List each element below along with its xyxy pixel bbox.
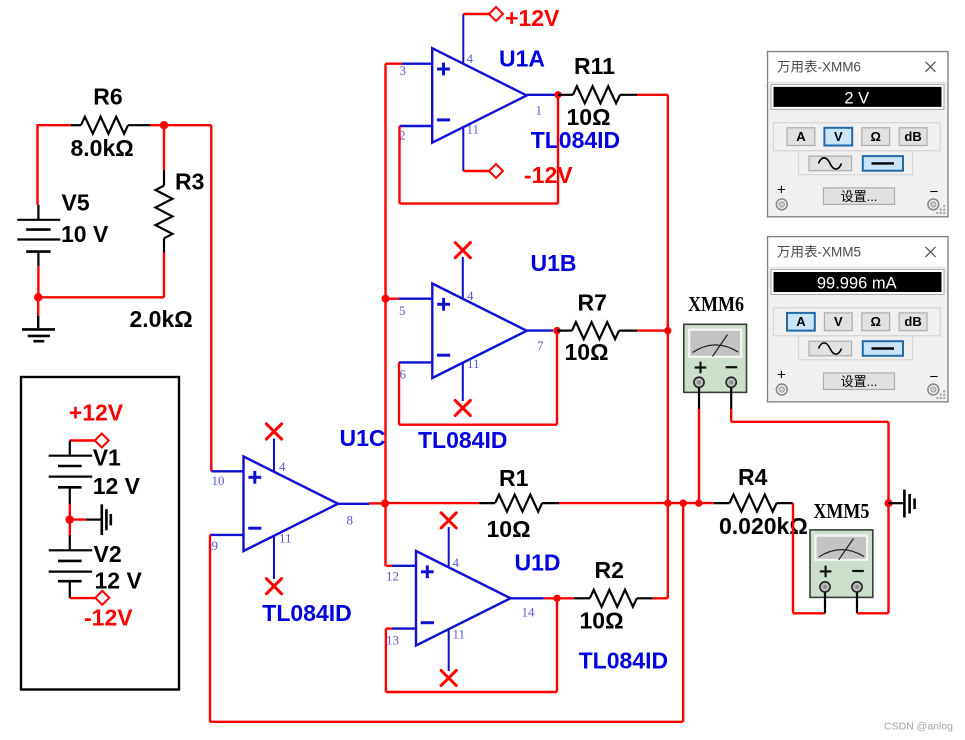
svg-text:−: − <box>930 369 939 386</box>
wire: R11 right to output bus <box>637 94 668 96</box>
wire: divider node down to U1C pin 10 <box>210 125 212 471</box>
no-connect X (U1B pin 11) <box>455 400 470 415</box>
dual supply box outline <box>21 377 179 690</box>
node: supply midpoint <box>65 515 73 523</box>
svg-text:12 V: 12 V <box>93 473 141 499</box>
wire: R3 bottom to V5 bottom node <box>38 253 164 298</box>
pin 4 stub U1A <box>462 14 464 64</box>
pin 2 stub U1A <box>400 125 433 127</box>
svg-text:+12V: +12V <box>505 5 560 31</box>
svg-text:A: A <box>796 314 806 329</box>
wire: XMM5 - terminal to ground net <box>857 422 889 614</box>
wire: main output line (node to R1) <box>385 502 479 504</box>
node: U1A output <box>554 91 561 98</box>
svg-text:U1A: U1A <box>499 46 545 72</box>
wire: U1D feedback (out to pin 13) <box>386 598 557 692</box>
wire: V1 bottom to mid node <box>69 504 71 519</box>
svg-text:0.020kΩ: 0.020kΩ <box>719 513 808 539</box>
pin 7 output stub U1B <box>527 329 553 331</box>
wire: U1C output to node <box>369 502 385 504</box>
no-connect X (U1D pin 4) <box>441 513 456 528</box>
node: V5 bottom junction <box>34 293 42 301</box>
wire: R7 right to output bus <box>637 329 668 331</box>
power rail -12V diamond (V2) <box>70 591 110 605</box>
svg-text:dB: dB <box>904 129 921 144</box>
multimeter panel XMM6 <box>768 52 949 217</box>
svg-text:V: V <box>834 129 843 144</box>
svg-text:TL084ID: TL084ID <box>579 647 668 673</box>
pin 4 stub U1B <box>462 257 464 299</box>
pin 11 stub U1A <box>462 126 464 171</box>
node: U1C output <box>381 499 389 507</box>
resistor R4 <box>714 464 808 539</box>
node: U1B output <box>553 327 560 334</box>
svg-text:R11: R11 <box>574 53 615 79</box>
svg-text:+: + <box>777 367 786 384</box>
pin 4 stub U1C <box>273 439 275 473</box>
svg-text:Ω: Ω <box>870 129 880 144</box>
svg-text:Ω: Ω <box>870 314 880 329</box>
svg-text:11: 11 <box>467 356 480 371</box>
pin 9 stub U1C <box>210 534 244 536</box>
svg-text:8.0kΩ: 8.0kΩ <box>71 135 134 161</box>
pin 12 stub U1D <box>392 565 416 567</box>
resistor R11 <box>558 53 637 130</box>
wire: R6 right to node A <box>150 124 164 126</box>
svg-text:设置...: 设置... <box>841 189 878 204</box>
pin 5 stub U1B <box>399 298 432 300</box>
node: XMM6 tap / main line <box>695 499 702 506</box>
wire: output bus vertical (R11/R7/R2 rail) <box>667 95 669 598</box>
node: feedback bus / main line <box>680 499 687 506</box>
svg-text:TL084ID: TL084ID <box>262 600 351 626</box>
svg-text:13: 13 <box>386 633 399 648</box>
svg-text:4: 4 <box>467 288 474 303</box>
svg-text:4: 4 <box>453 555 460 570</box>
pin 13 stub U1D <box>392 627 416 629</box>
svg-text:2 V: 2 V <box>844 89 869 107</box>
svg-text:V1: V1 <box>93 445 121 471</box>
wire: V5 top to R6 left <box>38 124 72 205</box>
node: input bus / U1B pin 5 <box>382 295 390 303</box>
wire: U1D out to R2 <box>544 597 574 599</box>
wire: node A to input bus corner <box>164 124 211 126</box>
no-connect X (U1C pin 4) <box>266 424 281 439</box>
svg-text:11: 11 <box>453 627 466 642</box>
svg-text:dB: dB <box>904 314 921 329</box>
multimeter icon XMM6 <box>684 324 747 392</box>
svg-text:5: 5 <box>399 303 406 318</box>
svg-text:R3: R3 <box>175 168 204 194</box>
op-amp U1D <box>416 551 511 646</box>
pin 11 stub U1B <box>462 362 464 401</box>
voltage source V5 <box>17 189 109 266</box>
node: output bus / main line <box>664 499 671 506</box>
svg-text:10 V: 10 V <box>61 221 109 247</box>
svg-text:TL084ID: TL084ID <box>418 427 507 453</box>
wire: U1B feedback (out to pin 6) <box>399 331 557 425</box>
svg-text:R2: R2 <box>595 557 624 583</box>
pin 14 output stub U1D <box>511 597 544 599</box>
wire: input bus to U1D pin 12 <box>386 565 393 567</box>
svg-text:U1B: U1B <box>531 250 577 276</box>
op-amp U1C <box>244 457 339 552</box>
pin 4 stub U1D <box>448 527 450 566</box>
pin 10 stub U1C <box>211 470 243 472</box>
wire: input bus to U1A pin 3 <box>386 63 403 65</box>
svg-text:-12V: -12V <box>524 162 573 188</box>
wire: XMM6 - terminal to ground net <box>731 388 888 422</box>
svg-text:+: + <box>777 182 786 199</box>
pin 3 stub U1A <box>402 63 432 65</box>
svg-text:10: 10 <box>212 473 225 488</box>
svg-text:R1: R1 <box>499 465 529 491</box>
pin 11 stub U1C <box>273 536 275 580</box>
resistor R3 <box>130 125 205 332</box>
svg-text:10Ω: 10Ω <box>487 516 531 542</box>
op-amp U1B <box>432 284 527 379</box>
svg-text:A: A <box>796 129 806 144</box>
pin 6 stub U1B <box>399 361 432 363</box>
wire: R2 right to output bus <box>653 597 668 599</box>
svg-text:V2: V2 <box>94 541 122 567</box>
wire: XMM6 + terminal to main node <box>698 388 700 504</box>
svg-text:R4: R4 <box>738 464 768 490</box>
wire: XMM5 + terminal stub <box>824 592 826 613</box>
no-connect X (U1C pin 11) <box>266 579 281 594</box>
wire: bus to U1B pin 5 <box>386 298 400 300</box>
svg-text:10Ω: 10Ω <box>567 104 611 130</box>
svg-text:12 V: 12 V <box>95 567 143 593</box>
svg-text:万用表-XMM5: 万用表-XMM5 <box>777 245 861 260</box>
multimeter panel XMM5 <box>768 237 949 402</box>
pin 1 output stub U1A <box>527 94 555 96</box>
resistor R1 <box>479 465 559 542</box>
node: U1D output <box>553 595 560 602</box>
power rail +12V diamond (V1) <box>70 434 109 448</box>
wire: V5 bottom to ground node <box>37 266 39 297</box>
svg-text:6: 6 <box>400 367 407 382</box>
svg-text:CSDN @anlog: CSDN @anlog <box>884 720 953 732</box>
svg-text:1: 1 <box>536 103 543 118</box>
svg-text:XMM5: XMM5 <box>813 499 869 523</box>
svg-text:TL084ID: TL084ID <box>531 127 620 153</box>
svg-text:4: 4 <box>467 51 474 66</box>
resistor R2 <box>574 557 653 634</box>
svg-text:12: 12 <box>386 569 399 584</box>
resistor R7 <box>557 290 637 366</box>
svg-text:4: 4 <box>279 459 286 474</box>
svg-text:R7: R7 <box>578 290 607 316</box>
pin 8 output stub U1C <box>338 503 369 505</box>
svg-text:设置...: 设置... <box>841 374 878 389</box>
node: R7 / output bus <box>664 327 671 334</box>
svg-text:万用表-XMM6: 万用表-XMM6 <box>777 60 861 75</box>
svg-text:V: V <box>834 314 843 329</box>
power rail +12V (U1A pin 4) <box>463 5 560 31</box>
op-amp U1A <box>432 48 527 143</box>
svg-text:10Ω: 10Ω <box>565 339 609 365</box>
pin 11 stub U1D <box>448 629 450 671</box>
wire: input bus vertical (U1A pin3 / U1B pin5 / U1D pin12) <box>384 64 386 566</box>
resistor R6 <box>71 84 151 161</box>
multimeter icon XMM5 <box>810 530 873 598</box>
svg-text:9: 9 <box>212 538 219 553</box>
svg-text:2.0kΩ: 2.0kΩ <box>130 306 193 332</box>
ground (right, rotated) <box>889 490 915 518</box>
node: ground tap <box>885 499 893 507</box>
node A: R6/R3 junction <box>160 121 168 129</box>
power rail -12V (U1A pin 11) <box>463 162 573 188</box>
svg-text:-12V: -12V <box>84 604 133 630</box>
svg-text:11: 11 <box>467 122 480 137</box>
svg-text:U1C: U1C <box>340 425 386 451</box>
no-connect X (U1B pin 4) <box>455 243 470 258</box>
svg-text:14: 14 <box>522 605 536 620</box>
svg-text:8: 8 <box>347 513 354 528</box>
wire: R1 right to main node <box>559 502 714 504</box>
ground (below V5) <box>22 297 55 341</box>
svg-text:−: − <box>930 184 939 201</box>
ground (supply midpoint, rotated) <box>70 504 111 535</box>
svg-text:11: 11 <box>279 531 292 546</box>
svg-text:XMM6: XMM6 <box>688 292 744 316</box>
svg-text:3: 3 <box>400 63 407 78</box>
wire: R4 to XMM5 + terminal <box>793 503 825 613</box>
svg-text:+12V: +12V <box>69 399 124 425</box>
wire: U1C pin 9 feedback via bottom bus <box>210 503 683 722</box>
svg-text:V5: V5 <box>62 189 90 215</box>
voltage source V1 <box>49 441 141 505</box>
svg-text:U1D: U1D <box>515 550 561 576</box>
svg-text:R6: R6 <box>93 84 122 110</box>
voltage source V2 <box>49 520 143 599</box>
svg-text:7: 7 <box>537 338 544 353</box>
svg-text:10Ω: 10Ω <box>580 608 624 634</box>
wire: U1A feedback (out to pin 2) <box>400 95 559 204</box>
svg-text:99.996 mA: 99.996 mA <box>817 275 897 293</box>
no-connect X (U1D pin 11) <box>441 670 456 685</box>
